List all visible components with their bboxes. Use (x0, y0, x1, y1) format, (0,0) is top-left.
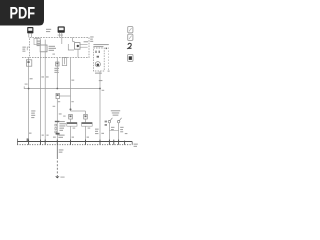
left box edge bracket (27, 47, 29, 50)
wire (relay feed jog) (68, 44, 74, 50)
connector icon U2 (top left connector) (27, 27, 33, 33)
bus pin labels above ground bus (29, 133, 128, 138)
ground G302 (55, 176, 64, 178)
connector C4 (x70.5) (69, 114, 73, 119)
wire (K2 down to box edge) (77, 49, 79, 57)
ground wire label (59, 149, 64, 152)
C3 pin labels (58, 101, 60, 102)
wire W7 (x70.5 from module bottom) (70, 58, 72, 111)
text above small box (93, 44, 108, 47)
bus right label (134, 144, 138, 147)
inline connector on W4 (56, 62, 59, 66)
small box pins (95, 51, 99, 58)
PDF badge (0, 0, 44, 26)
misc tiny labels (25, 54, 91, 129)
wire W8 (horizontal branch y111) (71, 110, 86, 112)
connector C5 (x85.5) (84, 114, 88, 119)
body control module dashed box (30, 37, 89, 57)
bottom dashed edge extension (22, 57, 30, 59)
S1/S2 wire labels (111, 127, 124, 133)
connector cavity (module top-left) (34, 37, 40, 44)
wire W13 (S1 to bus) (108, 123, 110, 142)
wire W9 (drop x85.5) (85, 111, 87, 115)
module text left (37, 41, 41, 47)
text below small box (95, 73, 102, 74)
wire W10 (Y1 to bus) (70, 119, 72, 122)
small dashed relay box (right) (93, 48, 104, 71)
W12 labels (95, 129, 99, 135)
U2 wire stubs (28, 33, 30, 37)
pin ticks on W6 (55, 124, 57, 133)
bus right end cap (131, 142, 133, 145)
inline connector C3 on W6 (56, 93, 59, 98)
wire W12 (x100 drop from small box) (99, 71, 101, 142)
legend icon page2 (128, 34, 133, 40)
dotted partition edge (right of small box) (108, 48, 110, 71)
legend icon solid box (128, 54, 133, 61)
wire W6 branch (taps W7 at y96) (59, 95, 70, 97)
splice tap on W6 (55, 121, 60, 122)
node A (splice at x57) (56, 88, 58, 90)
switch group label text (111, 110, 120, 116)
bus left end tick (16, 139, 18, 145)
ground bus (dashed rail) (17, 144, 132, 146)
wire W6 (connector down to bus) (56, 99, 58, 142)
wire W3 (x45.2 drop) (44, 40, 46, 142)
wire stub into box (73, 37, 75, 41)
W4 wire label (54, 68, 59, 73)
switch link wire (109, 130, 118, 132)
bus drop ticks (29, 140, 125, 145)
solenoid Y1 (left bar) (67, 122, 77, 126)
connector C2 (box bottom cavity) (62, 57, 66, 65)
pin labels above junction line (30, 76, 103, 81)
wire stubs from connector icon into box (59, 33, 61, 38)
relay K2 (right, with coil dot) (74, 43, 87, 50)
switch S1 (108, 118, 112, 123)
legend glyph (numeral) (127, 43, 131, 49)
wire W14 (S2 to bus) (118, 123, 120, 142)
pin mark (small box top right) (106, 48, 108, 50)
ground bus (solid rail) (17, 141, 132, 143)
relay K1 label (49, 46, 56, 51)
legend icon page1 (128, 27, 133, 33)
switch S2 (117, 118, 121, 123)
wire W4 (x57.3 drop upper) (56, 58, 58, 89)
relay K1 (40, 45, 47, 52)
wire W2 (x40.5 drop) (40, 40, 42, 45)
connector C6 (dark, on W6 bottom) (56, 133, 60, 135)
left wire label block (31, 110, 35, 118)
wire W11 (Y2 to bus) (85, 119, 87, 122)
node D label (102, 90, 105, 91)
fuse label F1 text (46, 29, 51, 32)
small icons right of W12 (105, 121, 107, 126)
wire W1 (module left drop x28.6) (28, 58, 30, 142)
W6 labels (59, 113, 66, 131)
wire W5 (horizontal junction wire) (24, 86, 100, 88)
node C (splice on W7) (70, 108, 72, 110)
node B (splice at x28.6) (28, 88, 30, 90)
inline connector on W1 (26, 60, 31, 66)
module right-edge pin labels (90, 36, 93, 41)
left box edge label (22, 47, 25, 52)
coil L1 inside small box (95, 62, 100, 67)
node D (T junction x100) (99, 88, 101, 90)
U1 pin label (58, 34, 63, 37)
solenoid Y2 (right bar) (82, 122, 93, 126)
svg-text:PDF: PDF (10, 5, 36, 23)
ground wire W15 (drop below bus) (56, 145, 58, 157)
connector tick on W1 above bus (27, 138, 29, 141)
relay K2 label (84, 41, 88, 42)
partition bottom tick (108, 71, 110, 72)
connector icon U1 (top instrument connector) (58, 26, 65, 32)
